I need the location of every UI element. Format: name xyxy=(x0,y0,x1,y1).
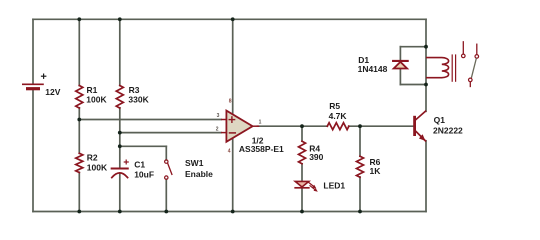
svg-text:2N2222: 2N2222 xyxy=(433,125,463,135)
label R6 1K xyxy=(370,157,382,176)
wire top rail xyxy=(33,18,426,20)
label R3 330K xyxy=(128,85,149,104)
junction bottom rail R2 xyxy=(77,210,81,214)
wire R4 to LED1 xyxy=(301,164,303,181)
svg-text:330K: 330K xyxy=(128,94,149,104)
resistor R6 xyxy=(357,156,364,177)
wire left column lower xyxy=(32,89,34,212)
op-amp pin 3 stub xyxy=(222,119,227,121)
wire below LED1 xyxy=(301,188,303,211)
relay contact left stub xyxy=(462,42,464,54)
wire R4 column top xyxy=(301,126,303,141)
relay core line 2 xyxy=(455,55,457,81)
wire R2 column bottom xyxy=(78,172,80,211)
wire R6 column bottom xyxy=(359,177,361,212)
wire below SW1 xyxy=(165,179,167,211)
label R1 100K xyxy=(86,85,107,104)
resistor R5 xyxy=(327,123,349,130)
relay moving contact lever xyxy=(471,59,476,78)
label 1/2 AS358P-E1 xyxy=(239,136,284,154)
svg-text:3: 3 xyxy=(217,113,220,119)
wire op-amp output to R5 xyxy=(258,125,328,127)
op-amp pin 2 stub xyxy=(222,132,227,134)
junction bottom rail op-amp power xyxy=(231,210,235,214)
relay coil xyxy=(427,58,449,78)
junction R5 R6 base xyxy=(358,124,362,128)
junction bottom rail R6 xyxy=(358,210,362,214)
junction top rail R1 xyxy=(77,17,81,21)
wire op-amp pin2 input xyxy=(120,132,221,134)
diode D1 xyxy=(393,61,408,69)
junction top rail op-amp power xyxy=(231,17,235,21)
svg-text:LED1: LED1 xyxy=(323,181,345,191)
relay contact right stub xyxy=(476,44,478,54)
wire SW1 top stub xyxy=(165,146,167,160)
svg-text:1N4148: 1N4148 xyxy=(358,64,388,74)
LED1 xyxy=(295,181,318,191)
svg-text:12V: 12V xyxy=(45,87,60,97)
resistor R4 xyxy=(299,141,306,164)
wire R1-R2 column middle xyxy=(78,108,80,154)
junction pin3 R1 xyxy=(77,118,81,122)
wire diode branch left lower xyxy=(399,69,401,85)
switch SW1 xyxy=(165,160,172,179)
wire R6 column top xyxy=(359,126,361,156)
svg-text:1: 1 xyxy=(259,120,262,126)
junction C1 SW1 branch xyxy=(118,144,122,148)
wire op-amp power column xyxy=(232,19,234,211)
label Q1 2N2222 xyxy=(433,115,463,136)
svg-text:4.7K: 4.7K xyxy=(329,111,348,121)
junction bottom rail SW1 xyxy=(164,210,168,214)
resistor R2 xyxy=(76,153,83,172)
op-amp U1 AS358P-E1 xyxy=(226,111,252,142)
wire below C1 xyxy=(119,174,121,212)
wire emitter column lower xyxy=(425,141,427,212)
relay contact right circle xyxy=(475,55,479,59)
op-amp pin 1 output stub xyxy=(253,125,259,127)
wire bottom rail xyxy=(33,211,426,213)
junction diode bottom xyxy=(424,83,428,87)
junction pin2 R3 xyxy=(118,131,122,135)
junction bottom rail C1 xyxy=(118,210,122,214)
wire op-amp pin3 input xyxy=(79,119,221,121)
wire diode branch left upper xyxy=(399,47,401,61)
relay moving contact stub xyxy=(469,82,471,86)
svg-text:SW1: SW1 xyxy=(185,158,204,168)
svg-text:8: 8 xyxy=(229,98,232,104)
junction diode top xyxy=(424,45,428,49)
label R5 4.7K xyxy=(329,101,348,121)
svg-text:R5: R5 xyxy=(329,101,340,111)
junction top rail R3 xyxy=(118,17,122,21)
junction bottom rail LED1 xyxy=(300,210,304,214)
label R2 100K xyxy=(87,153,108,173)
svg-text:390: 390 xyxy=(309,152,323,162)
svg-text:100K: 100K xyxy=(87,162,108,172)
capacitor C1 xyxy=(112,160,129,178)
wire relay column upper (collector) xyxy=(425,19,427,111)
resistor R1 xyxy=(76,86,83,109)
transistor Q1 xyxy=(413,111,425,141)
wire left column upper xyxy=(32,19,34,84)
svg-text:2: 2 xyxy=(216,127,219,133)
svg-text:Q1: Q1 xyxy=(434,115,446,125)
relay contact left circle xyxy=(462,54,466,58)
label C1 10uF xyxy=(134,160,154,180)
wire R3 to C1 column xyxy=(119,108,121,168)
svg-text:AS358P-E1: AS358P-E1 xyxy=(239,144,284,154)
battery 12V xyxy=(23,74,46,89)
wire SW1 branch horizontal xyxy=(120,145,167,147)
svg-text:10uF: 10uF xyxy=(134,170,154,180)
wire diode branch top horizontal xyxy=(400,46,426,48)
wire R1 column top xyxy=(78,19,80,85)
label SW1 Enable xyxy=(185,158,213,179)
label R4 390 xyxy=(309,144,323,163)
resistor R3 xyxy=(116,86,123,109)
wire R3 column top xyxy=(119,19,121,85)
wire R5 to Q1 base xyxy=(349,125,414,127)
svg-text:100K: 100K xyxy=(86,94,107,104)
svg-text:4: 4 xyxy=(228,148,231,154)
svg-text:Enable: Enable xyxy=(185,169,213,179)
svg-text:1K: 1K xyxy=(370,166,382,176)
relay core line 1 xyxy=(451,55,453,81)
svg-text:C1: C1 xyxy=(134,160,145,170)
wire diode branch bottom horizontal xyxy=(400,84,426,86)
relay moving contact circle xyxy=(469,78,473,82)
svg-text:R2: R2 xyxy=(87,153,98,163)
label D1 1N4148 xyxy=(358,55,388,74)
junction output R4 xyxy=(300,124,304,128)
